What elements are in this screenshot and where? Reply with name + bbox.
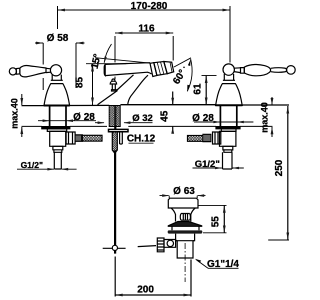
D28 right valve left arrow — [213, 121, 220, 124]
right valve tail pipe — [223, 152, 233, 169]
D63 left extension — [169, 196, 197, 198]
aerator ring — [150, 63, 157, 77]
aerator housing — [154, 62, 167, 76]
dimension 200 right extension — [190, 260, 192, 297]
pop-up rod — [114, 151, 116, 254]
spout neck inner diagonal — [117, 75, 134, 91]
right handle ball — [223, 64, 234, 75]
left valve hex nut — [66, 132, 75, 144]
waste slot window — [180, 214, 190, 221]
left handle neck flare — [51, 79, 63, 81]
angle 15 reference horizontal line — [86, 63, 126, 65]
waste body bottom step — [176, 240, 195, 242]
angle 60 top arrow — [188, 59, 191, 66]
D63 left arrow — [162, 194, 169, 197]
angle 15 slanted axis line — [95, 58, 151, 64]
svg-text:45: 45 — [159, 110, 170, 122]
D28 right arrow — [66, 119, 73, 122]
waste centerline — [184, 243, 186, 282]
pop-up knob cap — [110, 81, 116, 84]
dimension 55 top arrow — [223, 205, 226, 212]
dimension 170-280 left extension — [57, 6, 59, 29]
left handle neck — [46, 68, 51, 72]
dimension 45 line — [172, 92, 174, 130]
right handle ferrule — [241, 68, 245, 74]
dimension D32 line — [95, 122, 153, 124]
dimension 55 bottom extension — [203, 232, 227, 234]
deck top line — [22, 104, 290, 107]
right handle neck — [234, 68, 240, 73]
svg-text:55: 55 — [211, 216, 222, 228]
left valve ring — [47, 129, 66, 132]
right valve step — [223, 146, 233, 152]
dimension D58 right extension — [75, 43, 77, 88]
rod guide tube — [120, 132, 123, 144]
right bell bottom edge — [215, 104, 242, 106]
angle 60 upper line — [174, 58, 191, 67]
G1 1/4 arrow — [195, 259, 201, 263]
svg-text:G1"1/4: G1"1/4 — [207, 259, 239, 270]
right valve ring — [221, 129, 236, 132]
svg-text:85: 85 — [75, 77, 86, 89]
pop-up knob stem — [112, 84, 115, 90]
svg-text:G1/2": G1/2" — [195, 159, 220, 170]
svg-text:170-280: 170-280 — [131, 1, 168, 12]
dimension 170-280 right arrow — [223, 9, 231, 12]
left bell bottom edge — [44, 105, 70, 107]
svg-text:G1/2": G1/2" — [21, 160, 43, 170]
svg-text:Ø 28: Ø 28 — [192, 113, 214, 124]
dimension 61 bottom arrow — [205, 98, 208, 106]
right handle lever tip — [271, 68, 287, 73]
dimension 85 bottom arrow — [91, 98, 94, 106]
spout rear face — [104, 64, 105, 75]
dimension 200 left extension — [114, 257, 116, 297]
spout body left slope — [98, 91, 118, 105]
left handle bell base — [44, 84, 70, 106]
left valve body — [50, 131, 66, 146]
G1/2 right right-pointing arrow — [215, 167, 222, 170]
aerator tip end face — [170, 62, 174, 72]
G1/2 right label line — [193, 167, 244, 169]
left valve washer — [42, 127, 70, 129]
G1/2 right left-pointing arrow — [232, 167, 239, 170]
dimension max.40 right line — [271, 97, 273, 137]
D32 right arrow — [123, 121, 130, 124]
svg-text:Ø 63: Ø 63 — [173, 186, 195, 197]
right valve braided hose — [188, 136, 204, 142]
angle 60 bottom arrow — [187, 85, 190, 92]
dimension 170-280 left arrow — [58, 9, 66, 12]
dimension 61 line — [205, 76, 207, 106]
svg-text:Ø 58: Ø 58 — [47, 33, 69, 44]
waste body — [176, 234, 195, 241]
underline CH.12 — [129, 142, 154, 144]
left handle neck under ball — [52, 75, 61, 81]
max.40 right bottom arrow — [271, 127, 274, 134]
waste pivot ball — [167, 240, 173, 246]
svg-text:max.40: max.40 — [260, 102, 270, 133]
G1/2 left right-pointing arrow — [47, 168, 54, 171]
svg-text:200: 200 — [137, 285, 154, 296]
aerator housing grooves — [157, 62, 164, 75]
left valve hose ferrule — [75, 135, 82, 141]
left handle knob — [9, 68, 16, 75]
dimension 170-280 line — [58, 9, 231, 11]
waste seal ring — [168, 230, 203, 233]
spout lower edge — [105, 72, 151, 75]
dimension 200 line — [115, 294, 191, 296]
left handle ball — [50, 65, 61, 76]
dimension 250 top arrow — [286, 106, 289, 114]
dimension 116 right extension — [172, 36, 174, 61]
dimension 85 line — [92, 64, 94, 105]
G1/2 left left-pointing arrow — [61, 168, 68, 171]
right valve hose ferrule — [203, 134, 211, 141]
right handle neck flare — [223, 79, 235, 81]
svg-text:Ø 32: Ø 32 — [132, 113, 153, 124]
waste tail pipe — [177, 241, 193, 258]
angle 15 arc — [104, 44, 111, 63]
dimension 61 top extension — [202, 75, 217, 77]
dimension 250 line — [287, 106, 289, 240]
waste neck concave — [171, 208, 195, 222]
D28 left arrow — [43, 119, 50, 122]
dimension D58 right arrow — [76, 42, 84, 45]
svg-text:Ø 28: Ø 28 — [73, 112, 95, 123]
dimension 55 top extension — [199, 204, 227, 206]
left valve step — [53, 146, 63, 152]
svg-text:max.40: max.40 — [10, 98, 20, 129]
dimension 116 line — [115, 32, 173, 34]
angle vertex dot — [183, 67, 185, 69]
rod to waste crossbar right segment — [138, 246, 156, 247]
left valve through-deck cylinder — [50, 106, 66, 127]
dimension 250 bottom extension — [268, 239, 289, 241]
dimension 55 line — [223, 205, 225, 232]
dimension D58 left extension — [42, 43, 44, 90]
angle 60 arc — [187, 59, 192, 92]
left valve tail pipe — [54, 152, 61, 169]
dimension D63 line — [160, 195, 206, 197]
dimension 250 bottom arrow — [286, 233, 289, 241]
right handle neck under ball — [224, 74, 233, 80]
right handle end knob — [287, 66, 296, 75]
angle 15 arc lower arrow — [104, 57, 107, 64]
pop-up knob tip — [112, 79, 115, 81]
centre shank below washer — [112, 132, 117, 154]
right handle lever body — [244, 64, 270, 75]
centre shank threaded body — [109, 106, 120, 127]
dimension 200 right arrow — [184, 294, 192, 297]
dimension 45 bottom arrow — [171, 127, 174, 134]
centre horseshoe washer — [109, 129, 129, 131]
dimension max.40 left line — [21, 94, 23, 137]
pop-up knob stem base — [112, 90, 117, 91]
left handle ferrule — [16, 68, 20, 74]
max.40 left bottom arrow — [20, 127, 23, 134]
spout upper edge — [105, 63, 150, 65]
right valve body — [220, 131, 236, 146]
left handle lever body — [20, 66, 46, 77]
deck bottom line — [22, 125, 273, 127]
dimension 116 left extension — [114, 36, 116, 79]
dimension 170-280 right extension — [229, 6, 231, 63]
G1/2 left label line — [17, 168, 77, 170]
svg-text:250: 250 — [274, 159, 285, 176]
dimension 116 right arrow — [166, 32, 174, 35]
spout neck outer profile — [128, 75, 148, 105]
dimension 61 top arrow — [205, 76, 208, 84]
D63 right arrow — [197, 194, 204, 197]
waste flare collar — [168, 222, 201, 227]
right handle bell base — [216, 84, 243, 106]
dimension D58 line — [35, 42, 85, 44]
waste upper cylinder — [172, 226, 199, 230]
rod ball joint — [112, 245, 117, 250]
right valve hex nut — [213, 132, 221, 144]
max.40 left top arrow — [20, 98, 23, 105]
waste rod clamp — [157, 238, 164, 252]
dimension 45 top arrow — [171, 98, 174, 105]
max.40 right top arrow — [271, 98, 274, 105]
svg-text:61: 61 — [192, 83, 203, 95]
dimension D58 left arrow — [36, 42, 43, 45]
waste pivot housing — [164, 240, 176, 248]
G1 1/4 label leader — [196, 260, 238, 269]
dimension 55 bottom arrow — [223, 226, 226, 233]
D32 left arrow — [98, 121, 105, 124]
svg-text:116: 116 — [138, 23, 155, 34]
waste head body — [168, 198, 198, 208]
right valve washer — [216, 127, 240, 129]
dimension D28 left line — [38, 120, 96, 122]
dimension 200 left arrow — [115, 294, 123, 297]
dimension 116 left arrow — [115, 32, 123, 35]
left valve braided hose — [82, 135, 102, 141]
rod to waste crossbar left segment — [103, 247, 126, 249]
D28 right valve right arrow — [237, 121, 244, 124]
pop-up rod upper segment — [114, 106, 116, 130]
aerator tip — [164, 62, 174, 74]
dimension 85 top arrow — [91, 64, 94, 72]
dimension D28 right line — [194, 121, 253, 123]
right valve through-deck cylinder — [220, 106, 236, 127]
